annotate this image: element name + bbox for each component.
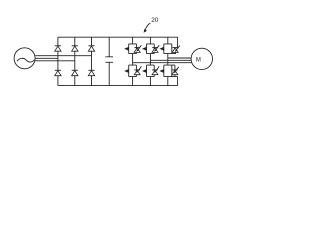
transistor emitter arrow of Q1: [124, 47, 129, 51]
transistor emitter arrow of Q6: [159, 69, 164, 73]
svg-text:M: M: [196, 58, 201, 64]
freewheel diode of Q1: [134, 47, 140, 49]
AC source circle: [14, 48, 35, 69]
capacitor C1 bottom lead: [108, 63, 110, 86]
diode D6 (leg3 lower): [88, 70, 94, 75]
freewheel diode of Q2: [152, 47, 158, 49]
wire phase A (top, source to rectifier leg 3): [35, 55, 91, 57]
AC source sine wave: [17, 58, 34, 62]
freewheel diode of Q4: [134, 69, 140, 71]
diode D3 (leg3 upper): [88, 46, 94, 51]
diode D4 (leg1 lower): [55, 70, 61, 75]
freewheel diode of Q5: [152, 69, 158, 71]
transistor emitter arrow of Q5: [142, 69, 147, 73]
freewheel diode of Q6: [174, 65, 176, 70]
inverter switch cell Q3 (leg3 upper): [159, 37, 180, 53]
inverter switch cell Q1 (leg1 upper): [124, 37, 141, 53]
wire output phase V (leg2 to motor, middle): [150, 59, 191, 61]
rectifier leg 2 wire: [74, 37, 76, 85]
gate lead of Q5: [156, 66, 159, 70]
leader arrow for label 20: [145, 23, 150, 30]
gate lead of Q4: [138, 66, 141, 70]
gate lead of Q6: [176, 67, 179, 71]
gate lead of Q3: [177, 46, 180, 50]
wire output phase W (leg3 to motor, top): [168, 57, 192, 59]
gate lead of Q2: [156, 45, 159, 49]
inverter switch cell Q6 (leg3 lower): [159, 54, 178, 86]
diode D5 (leg2 lower): [72, 70, 78, 75]
wire phase B (middle, source to rectifier leg 1): [35, 57, 58, 59]
inverter switch cell Q2 (leg2 upper): [142, 37, 159, 53]
inverter switch cell Q5 (leg2 lower): [142, 54, 159, 86]
inverter switch cell Q4 (leg1 lower): [124, 54, 141, 86]
transistor emitter arrow of Q4: [124, 69, 129, 73]
diode D2 (leg2 upper): [72, 46, 78, 51]
capacitor C1 plates: [105, 57, 113, 63]
rectifier leg 3 wire: [91, 37, 93, 85]
transistor emitter arrow of Q2: [142, 47, 147, 51]
motor M1 circle: [191, 48, 212, 69]
top rail right corner feeding Q3 diode: [177, 37, 179, 47]
transistor emitter arrow of Q3: [159, 47, 164, 51]
gate lead of Q1: [138, 45, 141, 49]
diode D1 (leg1 upper): [55, 46, 61, 51]
freewheel diode of Q3: [172, 47, 178, 49]
top DC rail: [58, 36, 178, 38]
bottom DC rail: [58, 85, 178, 87]
wire phase C (bottom, source to rectifier leg 2): [35, 60, 75, 62]
rectifier leg 1 wire: [57, 37, 59, 85]
bottom rail right corner: [177, 77, 179, 86]
svg-text:20: 20: [151, 17, 159, 24]
wire output phase U (leg1 to motor, bottom): [133, 62, 192, 64]
capacitor C1 top lead: [108, 37, 110, 56]
